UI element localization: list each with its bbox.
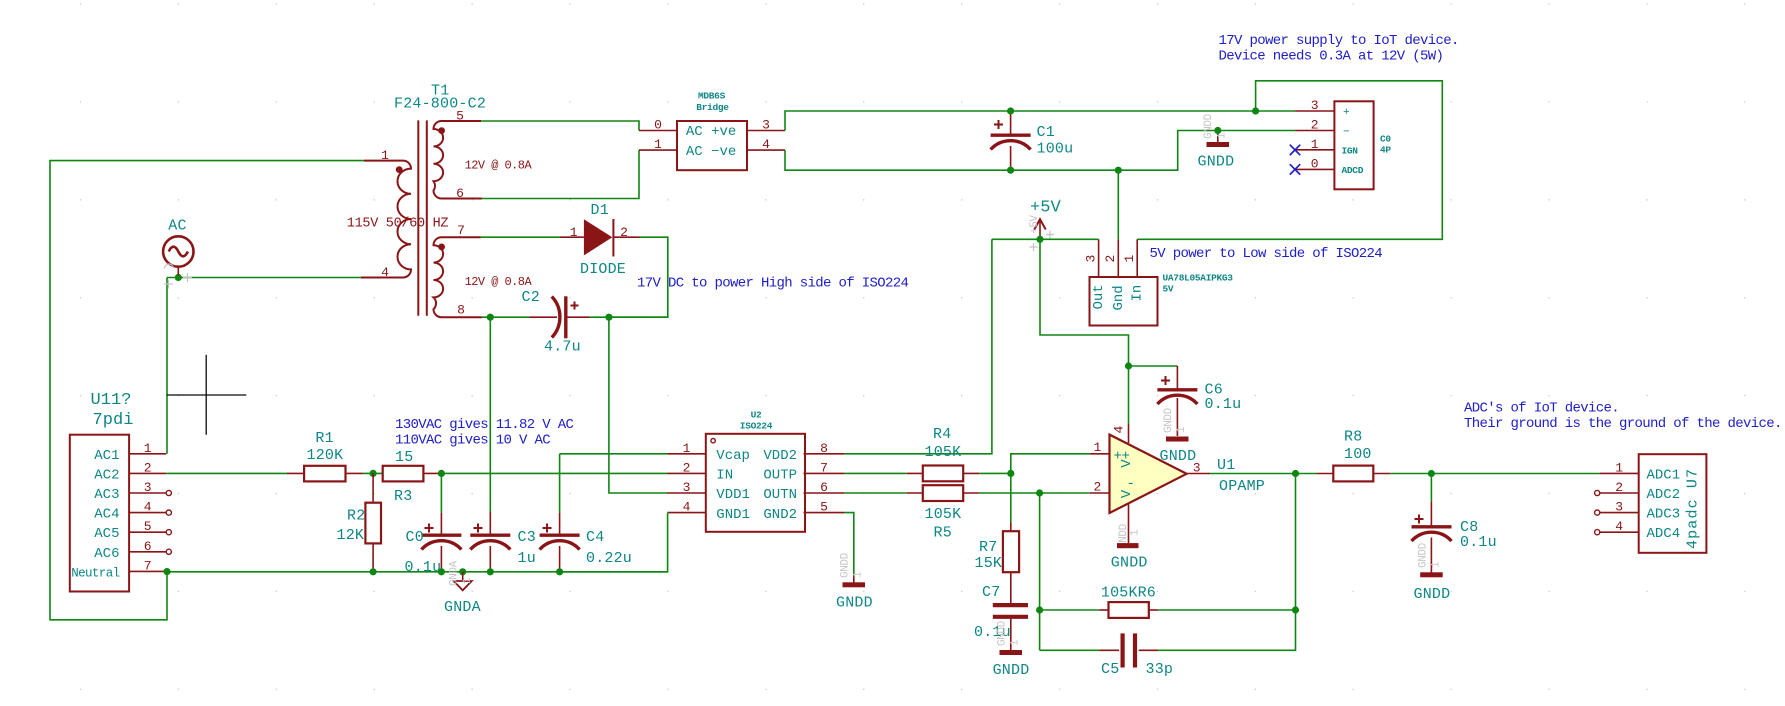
svg-text:R8: R8	[1344, 429, 1362, 446]
wire bridge pin4 to C1 bottom rail	[785, 131, 1295, 171]
node +5V junction	[1036, 236, 1043, 243]
svg-text:F24-800-C2: F24-800-C2	[394, 96, 486, 113]
svg-text:-: -	[1127, 476, 1135, 492]
wire ISO224 GND2 to GNDD	[844, 513, 853, 577]
connector C0 pin 0	[1295, 156, 1364, 176]
wire C5 to output node	[1158, 474, 1295, 651]
svg-text:R1: R1	[315, 430, 333, 447]
svg-text:6: 6	[144, 539, 152, 554]
svg-text:OUTP: OUTP	[763, 468, 797, 484]
svg-text:GND2: GND2	[763, 507, 797, 523]
svg-text:GNDD: GNDD	[836, 595, 873, 612]
wire R1 to R3	[363, 472, 383, 474]
svg-text:GNDD: GNDD	[1163, 407, 1175, 433]
svg-text:12V @ 0.8A: 12V @ 0.8A	[465, 159, 533, 173]
svg-text:110VAC gives 10 V AC: 110VAC gives 10 V AC	[395, 433, 550, 449]
svg-text:C0: C0	[406, 529, 424, 546]
svg-text:C7: C7	[982, 584, 1000, 601]
svg-text:1: 1	[1311, 137, 1319, 152]
node R3 output junction	[438, 470, 445, 477]
svg-text:R7: R7	[979, 539, 997, 556]
svg-text:AC6: AC6	[94, 546, 119, 562]
svg-text:4: 4	[381, 265, 389, 280]
svg-text:1: 1	[381, 148, 389, 163]
svg-text:17V DC to power High side of I: 17V DC to power High side of ISO224	[637, 276, 909, 292]
svg-text:+5V: +5V	[1030, 199, 1062, 218]
svg-text:0.22u: 0.22u	[586, 550, 632, 567]
resistor R5	[907, 485, 980, 501]
bridge rectifier U3 MDB6S body	[677, 121, 747, 170]
svg-text:100: 100	[1344, 446, 1372, 463]
node AC source junction	[175, 274, 182, 281]
node C0 bottom junction	[438, 568, 445, 575]
svg-text:DIODE: DIODE	[580, 261, 626, 278]
svg-text:7: 7	[820, 460, 828, 475]
connector C0 pin 2	[1295, 118, 1350, 139]
power symbol GNDA	[449, 560, 475, 590]
U7 pin 2 (ADC2)	[1595, 480, 1681, 503]
svg-text:GNDD: GNDD	[1203, 113, 1215, 139]
svg-text:7pdi: 7pdi	[93, 411, 134, 430]
regulator pin 2 Gnd	[1103, 239, 1127, 310]
svg-text:1: 1	[1130, 529, 1142, 536]
op-amp pin 2 (-)	[1090, 476, 1135, 498]
svg-text:1: 1	[1010, 639, 1022, 646]
svg-text:Gnd: Gnd	[1111, 285, 1127, 310]
node C8 junction	[1428, 470, 1435, 477]
svg-text:1: 1	[853, 571, 865, 578]
svg-text:4P: 4P	[1380, 145, 1391, 156]
svg-text:VDD1: VDD1	[716, 487, 750, 503]
svg-text:4: 4	[144, 500, 152, 515]
svg-text:105K: 105K	[925, 444, 962, 461]
svg-text:GNDA: GNDA	[444, 599, 481, 616]
resistor R3	[383, 466, 441, 482]
ISO224 pin 8 (VDD2)	[763, 441, 844, 464]
ISO224 pin 5 (GND2)	[763, 500, 844, 523]
svg-text:130VAC gives 11.82 V AC: 130VAC gives 11.82 V AC	[395, 417, 574, 433]
svg-text:2: 2	[1093, 479, 1101, 494]
node C1 bottom junction	[1007, 167, 1014, 174]
resistor R2	[365, 473, 381, 571]
svg-text:OUTN: OUTN	[763, 487, 797, 503]
resistor R6	[1099, 602, 1158, 618]
svg-text:5V power to Low side of ISO224: 5V power to Low side of ISO224	[1150, 246, 1383, 262]
svg-text:AC1: AC1	[94, 448, 119, 464]
svg-text:Their ground is the ground of: Their ground is the ground of the device…	[1464, 416, 1782, 432]
U11 pin 2 (AC2)	[94, 460, 166, 483]
svg-text:VDD2: VDD2	[763, 448, 797, 464]
svg-text:AC4: AC4	[94, 507, 119, 523]
svg-text:4: 4	[1112, 426, 1127, 434]
svg-text:R5: R5	[934, 525, 952, 542]
resistor R8	[1316, 466, 1390, 482]
svg-text:U2: U2	[751, 410, 762, 421]
ISO224 pin 1 (Vcap)	[668, 441, 750, 464]
svg-text:GND1: GND1	[716, 507, 750, 523]
svg-text:1: 1	[1431, 561, 1443, 568]
capacitor C5	[1099, 633, 1158, 667]
svg-text:2: 2	[1103, 255, 1118, 263]
svg-text:IGN: IGN	[1342, 146, 1359, 157]
node IoT supply junction	[1252, 107, 1259, 114]
transformer T1 core	[417, 120, 419, 315]
transformer T1 secondary winding 2 (pins 7-8)	[434, 223, 482, 318]
svg-text:Bridge: Bridge	[696, 102, 729, 113]
svg-text:2: 2	[1615, 480, 1623, 495]
wire regulator Gnd to C1 bottom rail	[1117, 170, 1119, 239]
svg-text:+5V: +5V	[1029, 215, 1041, 234]
wire 17V node down to VDD1 (ISO224 pin 3)	[609, 317, 668, 493]
svg-text:R6: R6	[1138, 585, 1156, 602]
wire C2 to 17V node	[590, 316, 668, 318]
capacitor C1	[991, 113, 1031, 168]
power symbol GNDD (C6)	[1163, 407, 1189, 441]
svg-text:1: 1	[570, 225, 578, 240]
svg-text:1: 1	[683, 441, 691, 456]
svg-text:0.1u: 0.1u	[405, 559, 442, 576]
no-connect X on pin 0	[1290, 164, 1300, 174]
svg-text:U11?: U11?	[91, 391, 132, 410]
wire AC line from source to transformer pin 4	[167, 277, 361, 279]
node C3 bottom junction	[487, 568, 494, 575]
svg-text:1: 1	[144, 441, 152, 456]
svg-text:C0: C0	[1380, 134, 1391, 145]
connector J1 C0 4P body	[1334, 101, 1373, 189]
capacitor C6	[1157, 366, 1197, 436]
svg-text:V: V	[1119, 459, 1135, 468]
node feedback junction on -input	[1036, 489, 1043, 496]
svg-text:GNDD: GNDD	[840, 552, 852, 578]
capacitor C0	[421, 513, 461, 572]
svg-text:5: 5	[820, 500, 828, 515]
svg-text:GNDD: GNDD	[1198, 154, 1235, 171]
node regulator GND junction	[1115, 167, 1122, 174]
op-amp ground pin	[1118, 504, 1142, 550]
wire R6 to output node	[1158, 609, 1295, 611]
ISO224 pin 4 (GND1)	[668, 500, 750, 523]
op-amp U1 body	[1110, 435, 1187, 513]
svg-text:AC −ve: AC −ve	[686, 144, 736, 160]
svg-text:3: 3	[1615, 500, 1623, 515]
svg-text:12K: 12K	[337, 527, 365, 544]
svg-text:C5: C5	[1101, 661, 1119, 678]
ISO224 pin 3 (VDD1)	[668, 480, 750, 503]
svg-text:6: 6	[820, 480, 828, 495]
node U11 Neutral junction	[163, 568, 170, 575]
U11 pin 5 (AC5)	[94, 519, 171, 542]
wire V+ junction down to opamp pin 4	[1128, 366, 1130, 424]
capacitor C7	[993, 605, 1028, 650]
svg-text:1: 1	[462, 577, 474, 584]
svg-text:C4: C4	[586, 529, 604, 546]
svg-text:3: 3	[1311, 98, 1319, 113]
wire R4 node down to R7	[1010, 473, 1012, 522]
svg-text:AC: AC	[168, 218, 186, 235]
node opamp V+ junction	[1125, 362, 1132, 369]
wire opamp output to R8	[1210, 473, 1316, 475]
wire AC source down to U11 pin 1	[166, 278, 168, 454]
capacitor C8	[1412, 474, 1452, 573]
svg-text:GNDD: GNDD	[993, 662, 1030, 679]
svg-text:115V 50/60 HZ: 115V 50/60 HZ	[347, 217, 449, 232]
wire IoT 17V loop to regulator input	[1137, 81, 1442, 240]
svg-text:0.1u: 0.1u	[1460, 534, 1497, 551]
wire diode cathode down to 17V rail	[609, 237, 668, 317]
ISO224 pin 2 (IN)	[668, 460, 734, 483]
node transformer pin8 junction	[487, 314, 494, 321]
svg-text:3: 3	[762, 118, 770, 133]
svg-text:3: 3	[1083, 255, 1098, 263]
U11 pin 6 (AC6)	[94, 539, 171, 562]
svg-text:5V: 5V	[1163, 284, 1174, 295]
svg-text:Out: Out	[1091, 284, 1107, 309]
U11 pin 3 (AC3)	[94, 480, 171, 503]
svg-text:IN: IN	[716, 468, 733, 484]
svg-text:1: 1	[1093, 440, 1101, 455]
svg-text:C2: C2	[522, 289, 540, 306]
op-amp pin 1 (+)	[1090, 440, 1135, 468]
svg-text:4padc U7: 4padc U7	[1685, 468, 1702, 549]
svg-text:GNDD: GNDD	[997, 620, 1009, 646]
op-amp pin 4 V+	[1112, 424, 1129, 443]
svg-text:D1: D1	[591, 202, 609, 219]
wire to R6	[1040, 609, 1100, 611]
wire GNDA rail	[167, 571, 668, 573]
bridge pin 1 (AC -ve left)	[639, 137, 677, 152]
svg-text:R4: R4	[933, 426, 951, 443]
svg-text:ADC3: ADC3	[1647, 507, 1681, 523]
svg-text:2: 2	[144, 460, 152, 475]
svg-text:C1: C1	[1037, 124, 1055, 141]
bridge pin 3 (+ve out)	[747, 118, 785, 133]
node GNDD junction near C1	[1214, 127, 1221, 134]
connector C0 pin 3	[1295, 98, 1350, 119]
svg-text:ADCD: ADCD	[1342, 165, 1364, 176]
transformer T1 secondary winding 1 (pins 5-6)	[434, 108, 482, 200]
svg-text:MDB6S: MDB6S	[698, 91, 726, 102]
connector C0 pin 1	[1295, 137, 1358, 157]
svg-text:AC +ve: AC +ve	[686, 124, 736, 140]
svg-text:ISO224: ISO224	[740, 421, 773, 432]
wire OUTP to R4	[844, 472, 906, 474]
svg-text:GNDD: GNDD	[1111, 555, 1148, 572]
svg-text:100u: 100u	[1037, 141, 1074, 158]
svg-text:UA78L05AIPKG3: UA78L05AIPKG3	[1163, 273, 1234, 284]
wire +5V to opamp supply	[1040, 239, 1129, 366]
svg-text:Neutral: Neutral	[71, 566, 119, 580]
power symbol GNDD (C7)	[997, 620, 1023, 655]
svg-text:ADC1: ADC1	[1647, 467, 1681, 483]
wire +5V down to ISO224 VDD2	[844, 239, 992, 453]
regulator U4 UA78L05AIPKG3 body	[1090, 277, 1158, 326]
svg-text:C3: C3	[518, 529, 536, 546]
svg-text:U1: U1	[1217, 457, 1235, 474]
wire 17V rail down to C3	[489, 317, 491, 511]
op-amp pin 3 output	[1187, 460, 1210, 475]
svg-text:8: 8	[820, 441, 828, 456]
wire junction up to +input row	[1011, 454, 1090, 474]
svg-text:V: V	[1119, 489, 1135, 498]
node R2 bottom junction	[370, 568, 377, 575]
ISO224 pin 7 (OUTP)	[763, 460, 844, 483]
svg-text:15K: 15K	[975, 555, 1003, 572]
svg-text:3: 3	[683, 480, 691, 495]
node R4 output junction	[1007, 470, 1014, 477]
resistor R4	[907, 466, 980, 482]
U11 pin 1 (AC1)	[94, 441, 166, 464]
wire OUTN to R5	[844, 492, 906, 494]
svg-text:Vcap: Vcap	[716, 448, 750, 464]
node C1 top junction	[1007, 107, 1014, 114]
AC source ghost marks	[164, 264, 192, 289]
svg-text:1: 1	[1176, 426, 1188, 433]
svg-text:OPAMP: OPAMP	[1219, 478, 1265, 495]
svg-text:33p: 33p	[1146, 661, 1174, 678]
node feedback R6 junction	[1036, 606, 1043, 613]
wire GND1 to GNDA rail	[560, 513, 668, 572]
wire Vcap C4 to ISO224 pin 1	[560, 453, 668, 455]
no-connect X on pin 1	[1290, 145, 1300, 155]
svg-text:GNDD: GNDD	[1414, 586, 1451, 603]
node C2 right junction	[605, 314, 612, 321]
svg-text:Device needs 0.3A at 12V (5W): Device needs 0.3A at 12V (5W)	[1219, 49, 1444, 65]
resistor R7	[1003, 522, 1019, 603]
svg-text:105K: 105K	[1101, 585, 1138, 602]
svg-text:2: 2	[620, 225, 628, 240]
svg-text:2: 2	[1311, 118, 1319, 133]
svg-text:3: 3	[1193, 460, 1201, 475]
svg-text:6: 6	[456, 186, 464, 201]
capacitor C2	[530, 296, 590, 338]
svg-text:1: 1	[654, 137, 662, 152]
power symbol GNDD (ISO224)	[840, 552, 866, 587]
wire transformer pin 6 to bridge pin 1	[482, 150, 639, 198]
wire junction down to C0	[440, 473, 442, 512]
wire U11 pin2 to R1	[166, 472, 287, 474]
power symbol GNDD (near C1)	[1203, 113, 1229, 147]
wire R4 to opamp + input	[979, 472, 1011, 474]
svg-text:1: 1	[1122, 255, 1137, 263]
bridge pin 4 (-ve out)	[747, 137, 785, 152]
regulator pin 1 In	[1122, 239, 1146, 301]
capacitor C3	[470, 512, 510, 572]
wire Neutral loop left vertical	[50, 161, 364, 620]
resistor R1	[287, 466, 363, 482]
svg-text:0.1u: 0.1u	[1205, 396, 1242, 413]
U7 pin 3 (ADC3)	[1595, 500, 1681, 523]
svg-text:In: In	[1130, 285, 1146, 302]
svg-text:GNDA: GNDA	[449, 560, 461, 586]
wire R8 to ADC1	[1390, 473, 1600, 475]
U11 pin 4 (AC4)	[94, 500, 171, 523]
connector U11 body	[70, 435, 129, 592]
svg-text:2: 2	[683, 460, 691, 475]
svg-text:17V power supply to IoT device: 17V power supply to IoT device.	[1219, 33, 1459, 49]
wire R5 to opamp - input	[979, 492, 1089, 494]
isolation amp U2 ISO224 body	[706, 434, 805, 532]
svg-text:0: 0	[654, 118, 662, 133]
wire transformer pin 7 to diode D1	[481, 236, 560, 238]
svg-text:ADC's of IoT device.: ADC's of IoT device.	[1464, 401, 1619, 417]
svg-text:R2: R2	[347, 508, 365, 525]
svg-text:AC2: AC2	[94, 467, 119, 483]
node GNDA junction	[459, 568, 466, 575]
svg-text:AC5: AC5	[94, 526, 119, 542]
wire bridge pin3 to C1 top rail	[785, 111, 1295, 131]
svg-text:ADC2: ADC2	[1647, 487, 1681, 503]
bridge pin 0 (AC +ve left)	[639, 118, 677, 133]
svg-text:GNDD: GNDD	[1418, 542, 1430, 568]
svg-text:+: +	[1343, 107, 1350, 119]
U7 pin 1 (ADC1)	[1600, 460, 1680, 483]
node R1-R2-R3 junction	[370, 470, 377, 477]
svg-text:4.7u: 4.7u	[544, 339, 581, 356]
svg-text:1: 1	[1615, 460, 1623, 475]
wire junction to C6	[1129, 365, 1178, 367]
svg-text:0: 0	[1311, 156, 1319, 171]
svg-text:120K: 120K	[307, 447, 344, 464]
wire C4 top from Vcap line	[559, 454, 561, 513]
wire C5 row	[1040, 649, 1100, 651]
svg-text:−: −	[1343, 127, 1350, 139]
wire IN from R3 node to ISO224 pin 2	[440, 472, 667, 474]
svg-text:4: 4	[1615, 519, 1623, 534]
node R6 output junction	[1292, 606, 1299, 613]
power symbol GNDD (C8)	[1418, 542, 1443, 577]
capacitor C4	[540, 513, 580, 572]
svg-text:ADC4: ADC4	[1647, 526, 1681, 542]
connector U7 4padc body	[1639, 454, 1707, 553]
power symbol +5V	[1029, 215, 1054, 251]
U7 pin 4 (ADC4)	[1595, 519, 1681, 542]
U11 pin 7 (Neutral)	[71, 558, 166, 580]
regulator pin 3 Out	[1083, 239, 1107, 309]
node opamp output junction	[1292, 470, 1299, 477]
svg-text:8: 8	[457, 303, 465, 318]
svg-text:1u: 1u	[518, 550, 536, 567]
svg-text:4: 4	[762, 137, 770, 152]
svg-text:R3: R3	[394, 488, 412, 505]
svg-text:AC3: AC3	[94, 487, 119, 503]
svg-text:4: 4	[683, 500, 691, 515]
node C4 bottom junction	[556, 568, 563, 575]
wire transformer pin 5 to bridge pin 0	[481, 121, 639, 131]
wire transformer pin 8 to C2	[482, 316, 530, 318]
svg-text:15: 15	[395, 449, 413, 466]
svg-text:5: 5	[144, 519, 152, 534]
svg-text:7: 7	[144, 558, 152, 573]
transformer T1 primary winding	[361, 148, 411, 280]
wire +5V rail to regulator Out	[992, 238, 1099, 240]
diode D1	[560, 219, 640, 257]
svg-text:12V @ 0.8A: 12V @ 0.8A	[465, 275, 533, 289]
cursor crosshair	[167, 394, 246, 396]
power symbol GNDD (op-amp)	[1117, 543, 1139, 548]
svg-text:7: 7	[457, 223, 465, 238]
AC source V1	[163, 236, 193, 266]
wire -input junction down to feedback row	[1039, 493, 1041, 650]
ISO224 pin 6 (OUTN)	[763, 480, 844, 503]
svg-text:105K: 105K	[925, 506, 962, 523]
svg-text:3: 3	[144, 480, 152, 495]
